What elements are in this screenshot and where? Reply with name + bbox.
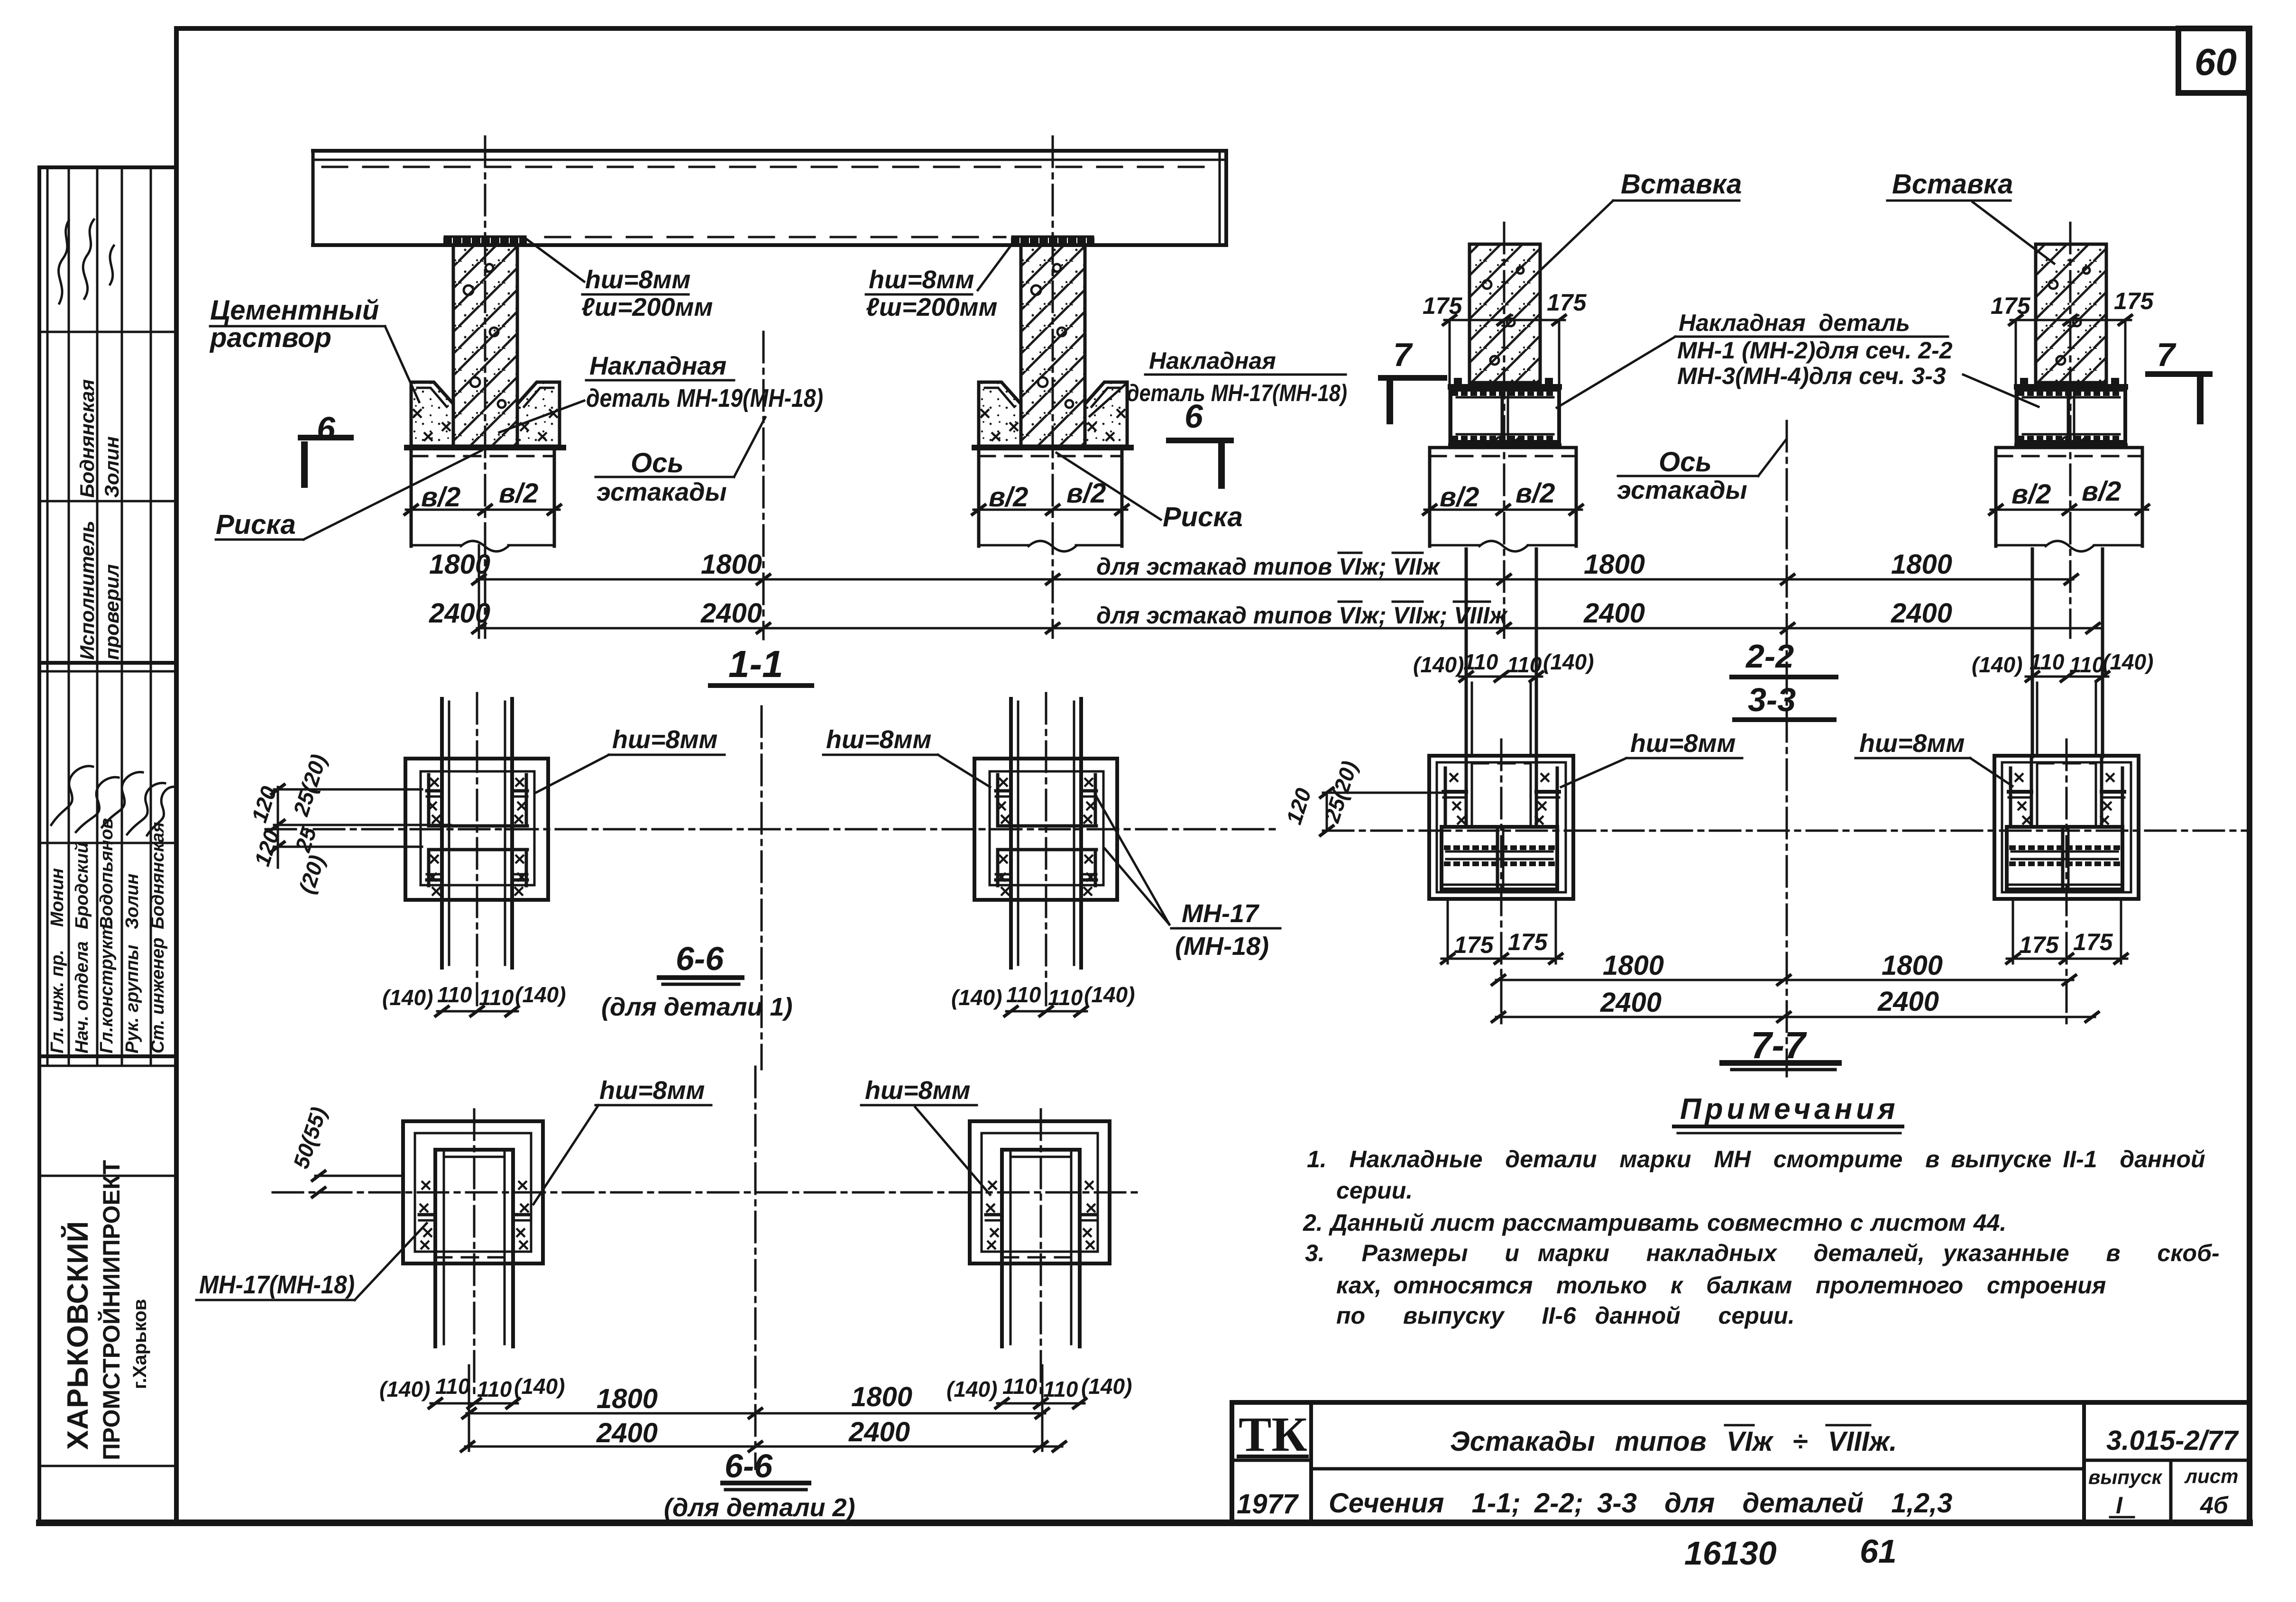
- svg-text:4б: 4б: [2200, 1492, 2229, 1519]
- svg-text:175: 175: [2073, 929, 2113, 955]
- axes of middle 6-6: [266, 828, 1280, 831]
- grout pad left: [411, 382, 453, 446]
- MN detail box: [1451, 390, 1559, 442]
- 1800 dim bottom: [461, 1382, 1050, 1419]
- svg-text:110: 110: [477, 1377, 512, 1401]
- 175 dims under 7-7: [1440, 929, 2129, 964]
- svg-text:ℓш=200мм: ℓш=200мм: [581, 293, 713, 321]
- svg-text:1. Накладные детали марки: 1. Накладные детали марки МН смотрите в …: [1307, 1146, 2205, 1172]
- svg-text:I: I: [2116, 1492, 2123, 1519]
- svg-text:hш=8мм: hш=8мм: [1859, 729, 1965, 758]
- 7-7 cross-section figure (reusable): [1429, 756, 1573, 963]
- svg-text:175: 175: [1454, 932, 1494, 958]
- svg-text:2400: 2400: [1583, 598, 1645, 629]
- 2400 dim bottom: [460, 1417, 1067, 1452]
- axis between (Os estakady): [762, 332, 765, 639]
- svg-text:(140): (140): [1972, 652, 2022, 677]
- svg-text:по выпуску II-6 данной сери: по выпуску II-6 данной серии.: [1336, 1302, 1795, 1329]
- svg-text:(140): (140): [515, 982, 566, 1007]
- svg-text:2. Данный лист рассматриват: 2. Данный лист рассматривать совместно с…: [1303, 1209, 2006, 1236]
- svg-text:110: 110: [2069, 652, 2104, 677]
- svg-text:Боднянская: Боднянская: [76, 379, 98, 498]
- column tube walls: [1465, 756, 1468, 827]
- svg-text:110: 110: [1507, 652, 1542, 677]
- title 2-2 / 3-3: [1732, 638, 1836, 720]
- column P1 with grout pads and footing (reusable): [404, 237, 563, 551]
- svg-text:в/2: в/2: [499, 478, 538, 509]
- section mark 6 left: [301, 410, 351, 485]
- svg-text:(140): (140): [946, 1377, 997, 1401]
- label weld h=8mm col2: [866, 240, 1015, 321]
- svg-text:Рук. группы: Рук. группы: [122, 945, 142, 1053]
- svg-text:110: 110: [435, 1374, 470, 1399]
- svg-text:Ось: Ось: [1659, 447, 1712, 477]
- svg-text:61: 61: [1860, 1533, 1897, 1570]
- svg-text:Исполнитель: Исполнитель: [76, 521, 98, 660]
- svg-text:Ст. инженер: Ст. инженер: [148, 938, 168, 1053]
- svg-text:1977: 1977: [1237, 1489, 1299, 1520]
- svg-text:(140): (140): [1081, 1374, 1132, 1399]
- svg-text:выпуск: выпуск: [2088, 1466, 2163, 1488]
- svg-text:2400: 2400: [596, 1418, 658, 1448]
- svg-text:в/2: в/2: [2011, 479, 2051, 510]
- label nakladnaya detal MN-1 MN-3: [1557, 310, 2039, 408]
- label weld 6-6 left: [536, 725, 725, 793]
- svg-text:6-6: 6-6: [676, 940, 724, 977]
- svg-text:7: 7: [2157, 336, 2177, 373]
- label weld h=8mm col1: [526, 239, 713, 321]
- rotated dim 50(55): [288, 1104, 403, 1198]
- svg-text:2400: 2400: [1877, 986, 1939, 1017]
- svg-text:175: 175: [1547, 289, 1587, 316]
- svg-text:3-3: 3-3: [1748, 681, 1796, 718]
- insert column (vstavka): [1469, 244, 1540, 383]
- svg-text:Ось: Ось: [631, 448, 684, 478]
- svg-text:(140): (140): [1084, 982, 1135, 1007]
- svg-text:6: 6: [317, 410, 336, 447]
- axis 2-2 col left: [1503, 223, 1506, 638]
- svg-text:МН-1 (МН-2)для сеч. 2-2: МН-1 (МН-2)для сеч. 2-2: [1677, 337, 1953, 364]
- svg-text:110: 110: [1463, 650, 1498, 674]
- (140) 110 dims under 2-2: [1413, 650, 2153, 682]
- svg-text:проверил: проверил: [101, 564, 123, 660]
- svg-text:2-2: 2-2: [1745, 638, 1794, 675]
- tube walls downward: [433, 1150, 437, 1346]
- svg-text:МН-17(МН-18): МН-17(МН-18): [199, 1271, 355, 1299]
- axis column 1: [484, 137, 487, 638]
- pad base line: [407, 445, 563, 450]
- svg-text:Риска: Риска: [1163, 502, 1243, 532]
- svg-text:Вставка: Вставка: [1621, 169, 1742, 200]
- svg-text:(140): (140): [2103, 650, 2153, 674]
- svg-text:(140): (140): [951, 985, 1002, 1010]
- svg-text:Нач. отдела: Нач. отдела: [72, 941, 92, 1053]
- svg-text:ХАРЬКОВСКИЙ: ХАРЬКОВСКИЙ: [61, 1221, 94, 1450]
- svg-text:МН-3(МН-4)для сеч. 3-3: МН-3(МН-4)для сеч. 3-3: [1677, 363, 1946, 389]
- sheet number box 60: [2178, 28, 2249, 93]
- title 7-7: [1722, 1024, 1839, 1070]
- svg-text:(140): (140): [379, 1377, 430, 1401]
- svg-text:Бродский: Бродский: [72, 842, 92, 929]
- 1800 dim line 7-7: [1491, 950, 2077, 986]
- svg-text:ПРОМСТРОЙНИИПРОЕКТ: ПРОМСТРОЙНИИПРОЕКТ: [98, 1160, 125, 1460]
- section mark 7 right: [2148, 336, 2210, 421]
- column shaft (concrete): [453, 245, 517, 446]
- svg-text:Водопьянов: Водопьянов: [97, 818, 117, 929]
- label riska right: [1056, 453, 1243, 532]
- svg-text:60: 60: [2195, 41, 2237, 83]
- label vstavka right: [1887, 169, 2054, 264]
- svg-text:1800: 1800: [1891, 549, 1952, 580]
- svg-text:(140): (140): [1413, 652, 1464, 677]
- svg-text:7-7: 7-7: [1751, 1024, 1807, 1066]
- svg-text:для эстакад типов VIж; VIIж; V: для эстакад типов VIж; VIIж; VIIIж: [1096, 602, 1508, 629]
- weld seam with marks: [419, 1213, 435, 1217]
- svg-text:110: 110: [1002, 1374, 1038, 1399]
- insert column with MN box and footing (reusable): [1422, 244, 1584, 551]
- svg-text:Эстакады типов VIж ÷ VIIIж: Эстакады типов VIж ÷ VIIIж.: [1450, 1426, 1897, 1457]
- dim line 2400 row: [429, 598, 2101, 634]
- svg-text:175: 175: [1508, 929, 1548, 955]
- 6-6 H cross-section figure (reusable): [405, 699, 548, 968]
- svg-text:Гл.конструкт.: Гл.конструкт.: [97, 919, 117, 1053]
- left stamp sidebar: [39, 167, 176, 1523]
- label axis Os estakady 2-2: [1617, 440, 1786, 504]
- label nakladnaya detal MN-19: [499, 352, 823, 432]
- svg-text:(140): (140): [514, 1374, 565, 1399]
- svg-text:hш=8мм: hш=8мм: [869, 265, 974, 294]
- svg-text:1800: 1800: [701, 549, 762, 580]
- svg-text:16130: 16130: [1684, 1535, 1777, 1572]
- title 6-6 (detail 2): [664, 1447, 855, 1522]
- svg-text:hш=8мм: hш=8мм: [865, 1076, 970, 1105]
- svg-text:серии.: серии.: [1336, 1177, 1413, 1204]
- svg-text:1800: 1800: [1882, 950, 1943, 981]
- v/2 dim line: [406, 509, 560, 511]
- label riska left: [216, 450, 482, 540]
- label weld bottom right: [861, 1076, 990, 1195]
- svg-text:1800: 1800: [429, 549, 490, 580]
- svg-text:(140): (140): [1543, 650, 1594, 674]
- crosshead beam: [313, 151, 1226, 245]
- svg-text:Накладная деталь: Накладная деталь: [1679, 310, 1910, 336]
- tube stubs above 7-7 figures: [1471, 683, 1473, 756]
- svg-text:в/2: в/2: [1440, 482, 1479, 513]
- svg-text:(для детали 1): (для детали 1): [601, 993, 792, 1021]
- svg-text:Цементный: Цементный: [210, 295, 379, 326]
- sidebar signatures middle: [51, 766, 93, 825]
- footing: [1430, 446, 1576, 449]
- svg-text:Гл. инж. пр.: Гл. инж. пр.: [47, 950, 67, 1053]
- svg-text:110: 110: [2030, 650, 2065, 674]
- svg-text:в/2: в/2: [989, 482, 1028, 513]
- v/2 dim: [1424, 509, 1582, 511]
- tube walls through figure: [440, 699, 444, 968]
- svg-text:3. Размеры и марки накладны: 3. Размеры и марки накладных деталей, ук…: [1305, 1240, 2220, 1266]
- svg-text:2400: 2400: [1600, 987, 1662, 1018]
- upper flange plates: [1443, 790, 1466, 794]
- svg-text:110: 110: [1006, 982, 1041, 1007]
- axis column 2: [1052, 137, 1054, 638]
- svg-text:1-1: 1-1: [728, 643, 783, 685]
- svg-text:МН-17: МН-17: [1182, 899, 1260, 928]
- extension lines below: [1447, 899, 1449, 963]
- svg-text:Золин: Золин: [101, 436, 123, 498]
- 175 dim: [1444, 319, 1565, 321]
- svg-text:175: 175: [1423, 293, 1463, 319]
- (140) 110 dims under middle 6-6: [382, 982, 1135, 1017]
- vertical axes of figures: [1500, 740, 1503, 1024]
- svg-text:Вставка: Вставка: [1892, 169, 2013, 200]
- section mark 6 right: [1169, 398, 1231, 485]
- svg-text:2400: 2400: [848, 1417, 910, 1447]
- svg-text:hш=8мм: hш=8мм: [826, 725, 931, 754]
- label MN-17 (MN-18) bottom: [196, 1223, 427, 1300]
- svg-text:Золин: Золин: [122, 874, 142, 929]
- svg-text:(МН-18): (МН-18): [1175, 932, 1269, 961]
- rotated dims 120 and 25(20) left of 7-7: [1281, 758, 1443, 836]
- 2400 dim line 7-7: [1491, 986, 2100, 1023]
- svg-text:2400: 2400: [700, 598, 762, 629]
- svg-text:Накладная: Накладная: [589, 352, 726, 380]
- lower plate box: [1442, 827, 1557, 889]
- tube cap plate: [435, 1148, 513, 1152]
- dim line 1800 row: [429, 549, 2079, 585]
- svg-text:Боднянская: Боднянская: [148, 822, 168, 929]
- lower flange band (mirror): [429, 848, 527, 851]
- svg-text:6-6: 6-6: [725, 1447, 773, 1484]
- svg-text:Монин: Монин: [47, 868, 67, 927]
- svg-text:175: 175: [1991, 293, 2031, 319]
- svg-text:1800: 1800: [851, 1382, 912, 1412]
- svg-text:7: 7: [1393, 336, 1413, 373]
- tube walls linking 2-2 to 7-7: [1465, 549, 1468, 757]
- title 1-1: [710, 643, 812, 686]
- svg-text:(для детали 2): (для детали 2): [664, 1493, 855, 1522]
- axes of bottom 6-6: [273, 1191, 1143, 1194]
- svg-text:ках, относятся только к бал: ках, относятся только к балкам пролетног…: [1336, 1272, 2106, 1299]
- label vstavka left: [1534, 169, 1742, 276]
- svg-text:деталь МН-17(МН-18): деталь МН-17(МН-18): [1127, 380, 1347, 406]
- svg-text:175: 175: [2114, 288, 2154, 314]
- (140) 110 dims bottom: [379, 1374, 1132, 1409]
- svg-text:hш=8мм: hш=8мм: [1630, 729, 1736, 758]
- svg-text:Риска: Риска: [216, 509, 296, 540]
- bearing plate: [1451, 384, 1559, 390]
- svg-text:в/2: в/2: [1066, 478, 1106, 509]
- svg-text:hш=8мм: hш=8мм: [612, 725, 717, 754]
- sidebar signatures top: [59, 220, 69, 303]
- 6-6 U cross-section figure (reusable): [403, 1121, 543, 1346]
- svg-text:2400: 2400: [1891, 598, 1952, 629]
- svg-text:1800: 1800: [597, 1383, 658, 1414]
- svg-text:эстакады: эстакады: [1617, 476, 1747, 504]
- label MN-17 (MN-18) right: [1096, 796, 1280, 961]
- svg-text:1800: 1800: [1584, 549, 1645, 580]
- svg-text:г.Харьков: г.Харьков: [129, 1299, 150, 1389]
- svg-text:hш=8мм: hш=8мм: [585, 265, 690, 294]
- label nakladnaya detal MN-17 near col2: [1090, 348, 1347, 416]
- svg-text:для эстакад типов VIж; VIIж: для эстакад типов VIж; VIIж: [1096, 553, 1441, 580]
- svg-text:Накладная: Накладная: [1149, 348, 1276, 374]
- title 6-6 (detail 1): [601, 940, 792, 1021]
- svg-text:(140): (140): [382, 985, 433, 1010]
- svg-text:эстакады: эстакады: [597, 478, 727, 506]
- label cement mortar: [209, 295, 419, 402]
- svg-text:Сечения 1-1; 2-2; 3-3 для д: Сечения 1-1; 2-2; 3-3 для деталей 1,2,3: [1329, 1488, 1952, 1519]
- extension verticals bottom dims: [468, 1365, 470, 1451]
- svg-text:175: 175: [2019, 932, 2059, 958]
- svg-text:1800: 1800: [1603, 950, 1664, 981]
- svg-text:3.015-2/77: 3.015-2/77: [2106, 1425, 2239, 1456]
- svg-text:6: 6: [1185, 398, 1203, 435]
- grout pad right: [517, 382, 560, 446]
- upper flange band: [427, 789, 442, 793]
- extension verticals for dims: [478, 545, 480, 638]
- label weld 7-7 left: [1561, 729, 1742, 787]
- svg-text:в/2: в/2: [2082, 476, 2121, 507]
- bearing plate: [445, 237, 525, 245]
- label axis Os estakady 1-1: [596, 417, 765, 506]
- svg-text:деталь МН-19(МН-18): деталь МН-19(МН-18): [586, 384, 823, 412]
- left rotated dims 120 25(20): [247, 751, 450, 897]
- svg-text:ℓш=200мм: ℓш=200мм: [866, 293, 997, 321]
- label weld bottom left: [533, 1076, 711, 1204]
- svg-text:лист: лист: [2184, 1465, 2239, 1487]
- section mark 7 left: [1381, 336, 1444, 421]
- svg-text:в/2: в/2: [1515, 478, 1555, 509]
- svg-text:в/2: в/2: [421, 482, 460, 513]
- svg-text:2400: 2400: [429, 598, 490, 629]
- axis 2-2 col right: [2069, 223, 2072, 638]
- svg-text:Примечания: Примечания: [1680, 1093, 1899, 1126]
- central axis of right pair: [1786, 421, 1788, 1076]
- horizontal axis of 7-7 pair: [1323, 830, 2248, 832]
- svg-text:hш=8мм: hш=8мм: [599, 1076, 705, 1105]
- footing: [410, 448, 413, 546]
- label weld 7-7 right: [1855, 729, 2012, 786]
- label weld 6-6 right: [823, 725, 990, 787]
- svg-text:ТК: ТК: [1239, 1407, 1307, 1462]
- svg-text:110: 110: [437, 982, 472, 1007]
